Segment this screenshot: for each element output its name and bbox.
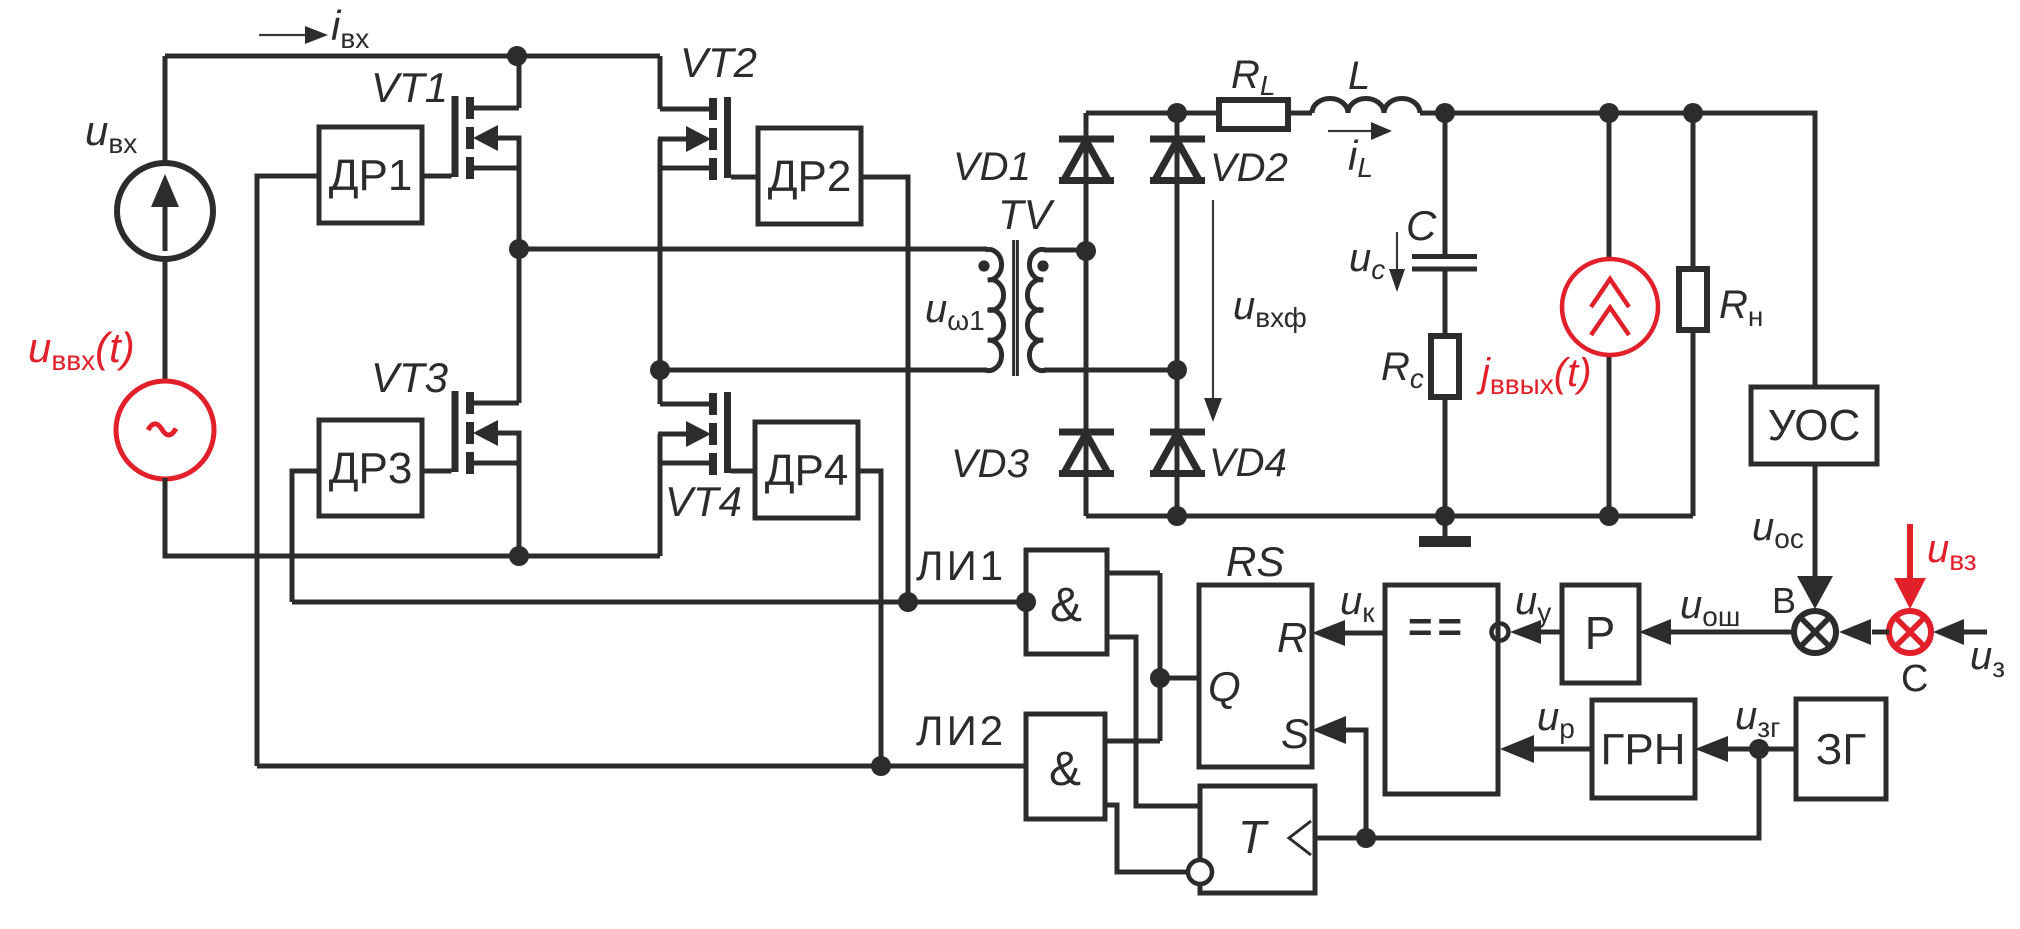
- svg-text:VD2: VD2: [1210, 146, 1288, 190]
- wire: rectifier top rail to R_L: [1086, 111, 1219, 116]
- wire: DR4 output down to LI2 line: [858, 471, 881, 766]
- svg-text:C: C: [1406, 202, 1437, 249]
- svg-text:ДР4: ДР4: [765, 446, 849, 495]
- svg-text:VD1: VD1: [953, 145, 1031, 189]
- node: top rail junction: [507, 46, 527, 66]
- wire: DR1 input from LI2 line: [257, 176, 319, 766]
- svg-text:ДР1: ДР1: [329, 151, 413, 200]
- node: VT3 source on bottom rail: [509, 546, 529, 566]
- node: secondary bottom / VD2 anode: [1167, 360, 1187, 380]
- wire: S branch up and into RS S input: [1346, 730, 1366, 838]
- wire: output top rail: [1420, 113, 1815, 387]
- diode VD2: [1150, 113, 1205, 370]
- node: VT2/VT4 midpoint: [650, 360, 670, 380]
- wire: R_n verticals: [1691, 113, 1696, 516]
- svg-text:ЗГ: ЗГ: [1816, 725, 1867, 774]
- red disturbance arrow u_vz: [1907, 524, 1913, 580]
- arrow i_L: [1328, 130, 1374, 132]
- summer node B: [1794, 611, 1836, 653]
- ground: [1443, 516, 1448, 536]
- wire: secondary top to VD junction: [1044, 248, 1086, 253]
- wire: R_c to bottom rail: [1443, 397, 1448, 516]
- arrow u_r from GRN to comparator: [1534, 747, 1592, 752]
- driver DR3 box: [319, 420, 422, 516]
- svg-text:В: В: [1772, 580, 1796, 621]
- wire: DR1 to VT1 gate: [422, 174, 452, 179]
- wire: left vertical source top: [163, 56, 168, 163]
- capacitor C plates: [1412, 254, 1477, 259]
- svg-text:ГРН: ГРН: [1601, 725, 1686, 774]
- svg-text:VD4: VD4: [1209, 441, 1287, 485]
- wire: rectifier bottom rail: [1086, 514, 1693, 519]
- svg-text:ЛИ1: ЛИ1: [916, 542, 1006, 589]
- svg-text:T: T: [1238, 811, 1269, 863]
- wire: VT2 gate to DR2: [731, 175, 758, 180]
- node: current source on bottom rail: [1599, 506, 1619, 526]
- wire: Q to LI1 upper input: [1107, 571, 1160, 576]
- comparator inversion bubble: [1492, 624, 1509, 641]
- svg-text:&: &: [1050, 579, 1082, 632]
- wire: VT4 source to bottom rail: [658, 463, 663, 556]
- node: C branch on bottom rail: [1435, 506, 1455, 526]
- wire: RS Q output to gates node: [1160, 676, 1199, 681]
- svg-text:RS: RS: [1226, 538, 1284, 585]
- trigger RS box: [1199, 585, 1312, 767]
- wire: bridge bottom rail: [163, 554, 661, 559]
- node: LI1 line at gate edge: [1016, 592, 1036, 612]
- wire: bridge mid to transformer primary top: [519, 247, 987, 252]
- tilde inside AC source: [148, 424, 176, 435]
- arrow i_vx: [259, 34, 312, 36]
- svg-text:&: &: [1049, 743, 1081, 796]
- block UOS (feedback amp): [1751, 387, 1877, 464]
- svg-text:TV: TV: [998, 191, 1056, 238]
- AND gate LI1 box: [1026, 550, 1107, 654]
- resistor R_L: [1219, 100, 1288, 129]
- svg-text:ДР2: ДР2: [768, 152, 852, 201]
- transformer TV secondary winding: [1027, 249, 1046, 370]
- current source arrow: [163, 205, 168, 251]
- wire: below AC source to bottom rail: [163, 478, 168, 556]
- driver DR1 box: [319, 127, 422, 223]
- svg-text:Р: Р: [1585, 607, 1616, 659]
- wire: DR3 to VT3 gate: [422, 469, 452, 474]
- svg-text:L: L: [1348, 54, 1370, 98]
- arrow from B to regulator P: [1671, 630, 1794, 635]
- node: ZG output branch: [1749, 739, 1769, 759]
- capacitor C branch wire: [1443, 113, 1448, 254]
- driver DR2 box: [758, 128, 861, 224]
- wire: Q to LI2 upper input: [1105, 739, 1160, 744]
- svg-text:VT1: VT1: [371, 64, 448, 111]
- wire: top rail from source to VT2 drain: [165, 54, 660, 59]
- primary polarity dot: [978, 260, 989, 271]
- driver DR4 box: [755, 422, 858, 518]
- wire: VT3 source to bottom rail: [517, 463, 522, 556]
- transistor VT3: [452, 249, 522, 474]
- node: S branch on clock line: [1356, 828, 1376, 848]
- wire: LI2 output line to DR1/DR4: [257, 764, 1026, 769]
- wire: ZG branch down to T clock line: [1315, 749, 1759, 838]
- block ZG (master oscillator): [1796, 699, 1886, 799]
- block GRN (ramp generator): [1592, 700, 1695, 798]
- svg-text:ДР3: ДР3: [329, 444, 413, 493]
- trigger T box: [1200, 786, 1315, 893]
- wire: j source verticals: [1607, 113, 1612, 516]
- transformer core: [1014, 240, 1018, 376]
- AC source u_vvx circle (red): [116, 381, 214, 479]
- resistor R_n: [1679, 269, 1707, 330]
- transistor VT4 (mirrored): [658, 370, 731, 475]
- arrow from C to B: [1872, 630, 1889, 635]
- wire: LI1 output line to DR3/DR2: [292, 600, 1026, 605]
- node: C branch top: [1435, 103, 1455, 123]
- wire: bridge mid to transformer primary bottom: [660, 368, 987, 373]
- arrow u_zg from ZG to GRN: [1728, 747, 1796, 752]
- wire: VT4 gate to DR4: [731, 469, 755, 474]
- svg-text:VT4: VT4: [665, 478, 742, 525]
- wire: VT2 source to mid node: [658, 168, 663, 370]
- transistor VT1: [452, 56, 522, 179]
- wire: UOS output down to summer B: [1813, 464, 1818, 579]
- node: DR2 branch on LI1 line: [898, 592, 918, 612]
- T inverted output bubble: [1188, 860, 1212, 884]
- wire: DR3 input from LI1 line: [292, 471, 319, 602]
- wire: VT1 source to mid node: [517, 168, 522, 249]
- node: Q branch: [1150, 668, 1170, 688]
- wire: Q vertical branch: [1158, 573, 1163, 741]
- node: j source top: [1599, 103, 1619, 123]
- diode VD4: [1150, 370, 1205, 516]
- wire: between sources: [163, 259, 168, 382]
- node: R_n top: [1683, 103, 1703, 123]
- T clock chevron: [1289, 821, 1311, 855]
- wire: secondary bottom to VD2 line: [1044, 368, 1177, 373]
- inductor L: [1312, 99, 1420, 114]
- transistor VT2 (mirrored): [658, 56, 731, 180]
- node: VD4 on bottom rail: [1167, 506, 1187, 526]
- comparator block ==: [1385, 585, 1498, 794]
- svg-text:Q: Q: [1208, 663, 1241, 710]
- node: DR4 branch on LI2 line: [871, 756, 891, 776]
- wire: T direct output to LI1: [1107, 637, 1200, 806]
- node: secondary top / VD1 anode: [1076, 241, 1096, 261]
- arrow u_vxf (phase voltage): [1212, 200, 1214, 400]
- resistor R_c: [1431, 336, 1459, 397]
- svg-text:VD3: VD3: [951, 442, 1029, 486]
- wire: R_L to L: [1288, 111, 1312, 116]
- svg-text:VT3: VT3: [371, 354, 448, 401]
- wire: T inverted output to LI2: [1105, 805, 1188, 872]
- svg-text:УОС: УОС: [1768, 401, 1861, 450]
- AND gate LI2 box: [1026, 714, 1105, 819]
- node: VT1/VT3 midpoint: [509, 239, 529, 259]
- current source u_vx circle: [117, 163, 213, 259]
- svg-text:С: С: [1901, 658, 1928, 700]
- summer node C (red): [1889, 611, 1931, 653]
- svg-text:R: R: [1277, 614, 1307, 661]
- diode VD1: [1059, 113, 1114, 251]
- diode VD3: [1059, 251, 1114, 516]
- node: VD2 top: [1167, 103, 1187, 123]
- svg-text:==: ==: [1408, 603, 1467, 650]
- wire: C to R_c: [1443, 272, 1448, 337]
- current source j_vvyx (red): [1562, 259, 1658, 355]
- svg-text:S: S: [1281, 710, 1309, 757]
- arrow comparator output u_k to RS R input: [1345, 631, 1385, 636]
- svg-text:VT2: VT2: [680, 39, 757, 86]
- arrow u_z into summer C: [1962, 630, 1987, 635]
- secondary polarity dot: [1037, 260, 1048, 271]
- svg-text:ЛИ2: ЛИ2: [916, 707, 1006, 754]
- block P (regulator): [1562, 585, 1639, 683]
- arrow u_c: [1396, 232, 1398, 272]
- wire: DR2 output down to LI1 line: [861, 177, 908, 602]
- transformer TV primary winding: [985, 249, 1004, 370]
- arrow from P to comparator bubble: [1540, 630, 1562, 635]
